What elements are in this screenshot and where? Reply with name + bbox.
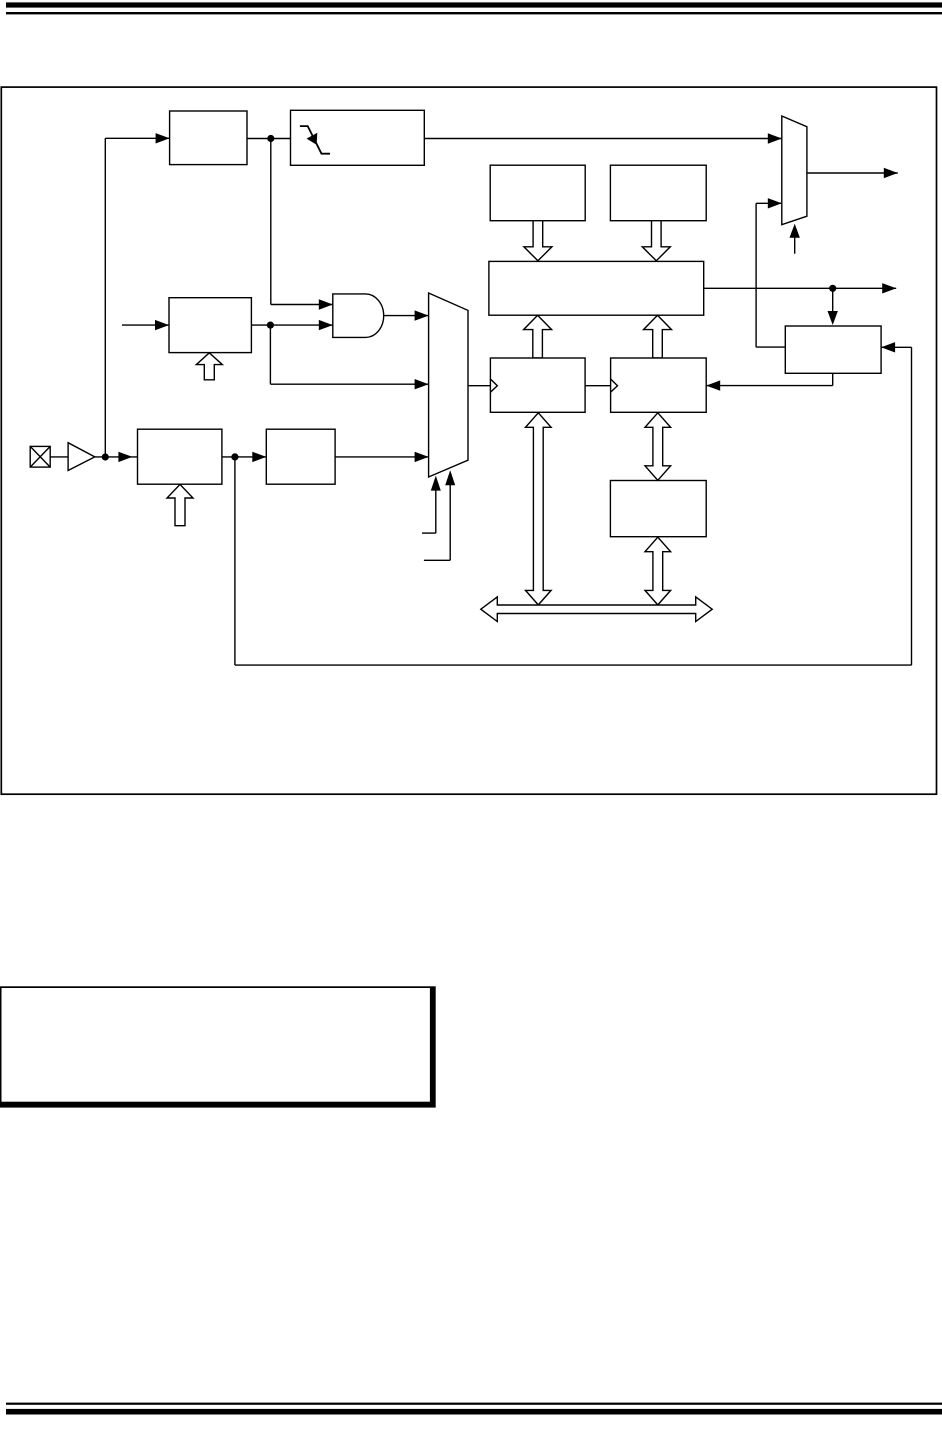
block timer oscillator (170, 111, 247, 165)
block control (169, 298, 251, 353)
wire clock branch vertical (104, 138, 106, 457)
wire clock to AND (271, 299, 333, 309)
wire TMR low to TMR high (585, 385, 611, 387)
wire latch output branch down (828, 288, 838, 325)
junction control output (267, 322, 274, 329)
wire latch output (704, 283, 897, 293)
register TMR high (611, 358, 707, 412)
block sync control (785, 326, 881, 373)
junction oscillator output (267, 135, 274, 142)
block prescaler (138, 429, 222, 484)
block edge detect synchronizer (291, 110, 425, 165)
block sync (266, 429, 335, 484)
wire control to AND (251, 320, 332, 330)
wire clock mux to TMR low (468, 385, 490, 387)
wire edge detect to output mux (424, 133, 782, 143)
note box with heavy shadow border (0, 986, 436, 1107)
input buffer (68, 443, 95, 471)
open arrow TMR high to latch (644, 315, 672, 358)
wire feedback loop (235, 342, 912, 665)
junction prescaler output (231, 453, 238, 460)
wire clock branch to clock mux (270, 379, 428, 389)
wire buffer to prescaler (95, 452, 138, 462)
data bus (481, 597, 712, 622)
falling edge symbol (300, 126, 330, 154)
AND gate (333, 294, 384, 338)
wire clock branch to sync block (105, 133, 169, 143)
output mux (782, 116, 807, 225)
open arrow buffer high to latch (524, 221, 552, 261)
wire clock vertical branch (270, 139, 272, 305)
clock mux (429, 293, 468, 477)
wire sync to clock mux (335, 452, 429, 462)
wire clock mux select 1 (424, 470, 455, 560)
open double arrow TMR low to data bus (526, 413, 552, 605)
block buffer high (490, 165, 585, 221)
wire oscillator to edge detect (247, 138, 291, 140)
open double arrow TMR high to control (645, 413, 671, 481)
open double arrow control to data bus (645, 537, 671, 605)
block buffer low (610, 165, 706, 221)
wire AND to clock mux (384, 310, 429, 320)
open arrow buffer low to latch (642, 221, 670, 261)
input pin T1CKI (crossed box) (30, 446, 50, 467)
wire clock out to output mux (756, 198, 785, 347)
wire mux input branch vertical (269, 325, 271, 384)
open arrow control enable (196, 353, 222, 380)
register TMR low (490, 358, 585, 412)
open arrow prescaler control (167, 484, 193, 525)
wire pin to buffer (50, 456, 68, 458)
wire output mux result (807, 168, 898, 178)
open arrow TMR low to latch (524, 315, 552, 358)
wire prescaler to sync (222, 452, 266, 462)
wire control block input (122, 320, 169, 330)
block timer latch (489, 261, 704, 315)
junction buffer output (102, 453, 109, 460)
wire clock mux select 0 (422, 476, 441, 533)
wire sync control to TMR high (706, 373, 833, 391)
junction latch output (829, 285, 836, 292)
block control register (610, 481, 706, 537)
wire output mux select (790, 224, 800, 254)
